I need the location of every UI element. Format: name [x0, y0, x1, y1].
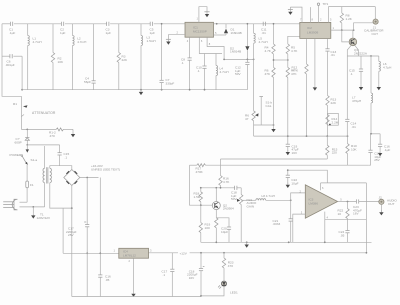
svg-text:R1: R1 [13, 102, 17, 106]
svg-text:.01: .01 [262, 31, 267, 35]
svg-text:S1-a: S1-a [31, 158, 38, 162]
svg-text:47K: 47K [265, 72, 271, 76]
wire: L7 node to C26 [371, 133, 380, 135]
svg-text:25V: 25V [68, 233, 74, 237]
svg-text:10µF: 10µF [221, 230, 228, 234]
capacitor C26 [171, 253, 173, 269]
svg-text:50V: 50V [235, 72, 241, 76]
transformer T1 [44, 146, 46, 168]
resistor R8 [341, 7, 343, 13]
wire: Q2 collector [215, 188, 217, 202]
svg-text:2N2222A: 2N2222A [354, 51, 368, 55]
svg-text:OUT: OUT [372, 32, 379, 36]
svg-text:4.7mH: 4.7mH [33, 40, 42, 44]
svg-text:22K: 22K [122, 58, 128, 62]
wire: IC4 ground leg [133, 258, 135, 291]
resistor R22 / capacitor C24 snubber [347, 202, 349, 209]
capacitor C27 [200, 253, 202, 269]
capacitor C19 to ground [286, 144, 290, 146]
connector J1 [374, 7, 376, 19]
svg-text:.1: .1 [163, 273, 166, 277]
wire: jack feed [354, 23, 373, 30]
svg-text:2.2M: 2.2M [332, 120, 339, 124]
svg-text:OUT: OUT [388, 202, 395, 206]
capacitor C3 [107, 22, 109, 26]
inductor L6 [378, 56, 380, 61]
wire: IC1 pin5 to detector [207, 37, 224, 59]
svg-text:10K: 10K [58, 60, 64, 64]
svg-text:.05: .05 [340, 233, 345, 237]
inductor L4 [215, 54, 217, 66]
wire: IC2 output line [331, 29, 354, 31]
wire: detector audio line [224, 58, 254, 60]
svg-text:1N914B: 1N914B [230, 50, 241, 54]
inductor L1 [27, 24, 29, 36]
potentiometer R1 [20, 96, 22, 129]
svg-text:L8 4.7mH: L8 4.7mH [262, 194, 275, 198]
wire: stub to ground bus [21, 56, 23, 89]
wire: wiper line to op-amp [241, 199, 256, 201]
svg-text:.1: .1 [181, 61, 184, 65]
capacitor C19b (emitter bypass) [216, 218, 229, 227]
wire: IC1 right pin to D1 [214, 34, 227, 36]
capacitor C5 [150, 22, 152, 26]
resistor R7 [286, 67, 289, 77]
svg-text:UNREG (SEE TEXT): UNREG (SEE TEXT) [91, 167, 120, 171]
svg-text:100: 100 [205, 226, 210, 230]
svg-text:TP1: TP1 [323, 2, 329, 6]
ground (detector) [273, 125, 275, 127]
switch S1-b [260, 97, 262, 125]
wire: +12V rail [149, 252, 179, 254]
ground (filter bus) [140, 89, 142, 91]
AC plug PL1 [12, 199, 17, 210]
wire: ground rail [201, 241, 372, 243]
wire: IC2 pin to ground [314, 38, 316, 85]
svg-text:47: 47 [245, 117, 249, 121]
wire: secondary top [50, 166, 72, 170]
wire: detector ground tie [254, 124, 274, 126]
svg-text:.05: .05 [105, 278, 110, 282]
resistor R15 [326, 136, 328, 145]
svg-text:56pF: 56pF [84, 80, 91, 84]
wire: unreg feed to IC4 [99, 178, 101, 254]
wire: collector line B [201, 187, 235, 189]
svg-text:J2: J2 [379, 196, 383, 200]
svg-text:POWER: POWER [10, 153, 22, 157]
svg-text:10K: 10K [351, 148, 357, 152]
capacitor C12 [246, 59, 248, 62]
wire: antenna stub [2, 55, 10, 57]
wire: bridge + output [80, 177, 99, 179]
switch node / capacitor [26, 129, 28, 137]
svg-text:470: 470 [50, 134, 55, 138]
resistor R5 [288, 36, 300, 44]
resistor R19 [200, 205, 202, 222]
svg-text:.1: .1 [65, 155, 68, 159]
svg-text:.1: .1 [350, 72, 353, 76]
op-amp IC3 LM386 [305, 185, 337, 218]
wire: audio +12V rail A [221, 158, 328, 160]
wire: LED return [201, 286, 224, 296]
switch S1-a [21, 155, 23, 157]
wire: IC2 pin5 to calibrator rail [329, 7, 376, 23]
capacitor C28 (audio supply filter) [370, 134, 372, 150]
diode D1 [225, 24, 227, 29]
capacitor C18 [235, 186, 237, 190]
svg-text:25V: 25V [374, 158, 380, 162]
wire: pin6 supply line [288, 170, 328, 183]
svg-text:10: 10 [338, 212, 342, 216]
svg-text:4.7K: 4.7K [223, 180, 230, 184]
svg-text:4.7K: 4.7K [265, 49, 272, 53]
wire: IC1 pin2 stub [168, 35, 185, 40]
svg-text:.1: .1 [197, 69, 200, 73]
ground (main) [245, 242, 249, 247]
capacitor C6 [10, 54, 12, 58]
svg-text:1µF: 1µF [60, 31, 66, 35]
resistor R2 [52, 24, 54, 53]
wire: box top [320, 183, 322, 190]
resistor R20 (emitter) [215, 210, 217, 218]
svg-text:1µF: 1µF [106, 31, 112, 35]
wire: top signal bus [2, 23, 10, 25]
wire: IC4 input line [63, 252, 119, 254]
wire: op-amp + input [291, 193, 306, 200]
svg-text:1N914B: 1N914B [231, 31, 242, 35]
connector J2 [379, 199, 384, 204]
resistor R4 [273, 24, 275, 44]
svg-text:10µF: 10µF [291, 181, 298, 185]
potentiometer R21 audio gain [240, 188, 242, 195]
wire: IC3 supply right leg [365, 183, 367, 253]
capacitor C2 [61, 22, 63, 26]
capacitor C22 (pin6 bypass) [287, 170, 289, 175]
diode D2 [246, 24, 248, 46]
svg-text:CAL: CAL [266, 104, 272, 108]
svg-text:600P: 600P [15, 140, 22, 144]
svg-text:1.5M: 1.5M [194, 195, 201, 199]
svg-text:LED1: LED1 [230, 291, 238, 295]
wire: left antenna drop [2, 24, 21, 97]
svg-text:47K: 47K [293, 69, 299, 73]
svg-text:MC1350P: MC1350P [193, 30, 207, 34]
svg-text:IC2: IC2 [307, 26, 312, 30]
inductor L7 [370, 56, 372, 93]
svg-text:4.7K: 4.7K [291, 49, 298, 53]
wire: inverting input [293, 214, 306, 242]
svg-text:.01: .01 [352, 125, 357, 129]
svg-text:470: 470 [228, 264, 233, 268]
capacitor C25 [99, 253, 101, 275]
transistor Q2 [212, 202, 220, 210]
wire: IC3 pin4 [324, 212, 326, 243]
wire: Q1 emitter to oscillator line [347, 45, 351, 56]
LED1 [221, 281, 226, 286]
ground (J2) [380, 204, 382, 212]
svg-text:22K: 22K [331, 101, 337, 105]
capacitor C21 [290, 200, 292, 219]
capacitor C8 [189, 37, 191, 58]
svg-text:1.2K: 1.2K [346, 17, 353, 21]
capacitor C15 [360, 56, 362, 69]
svg-text:50V: 50V [231, 197, 237, 201]
svg-text:ATTENUATOR: ATTENUATOR [32, 111, 56, 115]
svg-text:16V: 16V [292, 151, 298, 155]
svg-text:+12V: +12V [180, 251, 188, 255]
svg-text:120V/12V: 120V/12V [37, 216, 52, 220]
wire: IF tie [274, 59, 288, 61]
regulator IC4 [119, 248, 149, 258]
resistor R16 [220, 159, 222, 176]
wire: bottom supply rail [72, 296, 201, 298]
wire: attenuator bottom [21, 128, 56, 130]
capacitor C4 [93, 24, 95, 81]
resistor R23 (LED) [223, 253, 225, 258]
svg-text:16V: 16V [189, 276, 195, 280]
capacitor C14 [346, 56, 348, 119]
op-amp U/IC1 box [185, 22, 214, 37]
wire: IC3 output [338, 201, 357, 203]
svg-text:LM386: LM386 [309, 201, 319, 205]
fuse F1 [26, 181, 29, 188]
capacitor C13 [327, 38, 329, 48]
inductor L3 [140, 24, 142, 36]
wire: plug neutral [20, 206, 45, 208]
svg-text:4.7mH: 4.7mH [220, 70, 229, 74]
capacitor C7 [161, 24, 163, 81]
op-amp U/IC2 box [300, 22, 331, 38]
capacitor C11 [263, 22, 265, 26]
inductor L2 [72, 24, 74, 36]
ground (IC1 pin2) [166, 38, 171, 40]
capacitor C23 [356, 199, 358, 203]
resistor R3 [118, 24, 120, 53]
wire: switch arm feed [26, 145, 28, 150]
resistor R10 [347, 136, 349, 144]
svg-text:.01: .01 [331, 53, 336, 57]
svg-text:.001µF: .001µF [5, 63, 15, 67]
svg-text:4.7µH: 4.7µH [383, 65, 391, 69]
inductor L5 [253, 24, 255, 33]
resistor R6b [272, 67, 275, 77]
wire: IC2 pins to top ground bracket [290, 7, 302, 22]
svg-text:1.5mH: 1.5mH [147, 39, 156, 43]
svg-text:470µH: 470µH [352, 99, 361, 103]
resistor R18 [200, 188, 202, 192]
resistor R2b horizontal [56, 128, 63, 131]
resistor R14 (boxed) [328, 113, 339, 125]
wire: bus into IC1 right side [214, 23, 300, 25]
svg-text:16V: 16V [353, 212, 359, 216]
ground (attenuator) [72, 129, 74, 131]
svg-text:.0033: .0033 [273, 222, 281, 226]
wire: mains top line [27, 144, 59, 146]
potentiometer R6 [252, 111, 255, 121]
ground (IC2 top) [288, 9, 293, 11]
capacitor C16 [379, 134, 381, 144]
ground (IC1 top) [204, 11, 209, 13]
svg-text:4.7mH: 4.7mH [77, 40, 86, 44]
svg-text:4.7mH: 4.7mH [259, 40, 268, 44]
svg-text:2N3904: 2N3904 [223, 207, 234, 211]
capacitor C17 [86, 178, 88, 225]
wire: Q1 base [342, 30, 349, 42]
svg-text:F1: F1 [30, 183, 34, 187]
svg-text:LM78L12: LM78L12 [123, 254, 136, 258]
svg-text:.1µF: .1µF [9, 31, 15, 35]
wire: bridge bottom to common [71, 186, 73, 297]
wire: calibrator bottom rail [254, 135, 348, 137]
resistor R12 [306, 38, 308, 64]
wire: plug hot [20, 201, 28, 203]
capacitor C1 [10, 22, 12, 26]
capacitor C16b (line filter) [59, 145, 61, 153]
inductor L8 [256, 199, 266, 201]
wire: filter ground bus [22, 89, 247, 91]
svg-text:LM3909: LM3909 [307, 30, 318, 34]
test point TP1 [318, 6, 320, 23]
resistor R17 [190, 164, 197, 166]
svg-text:.1µF: .1µF [384, 148, 390, 152]
svg-text:330pF: 330pF [166, 81, 175, 85]
svg-text:470K: 470K [196, 170, 204, 174]
wire: IC1 pin1 to ground [199, 7, 207, 23]
bridge rectifier D3-D6 [64, 170, 80, 186]
transistor Q1 [352, 30, 354, 38]
svg-text:GAIN: GAIN [247, 205, 255, 209]
capacitor C10 [204, 54, 206, 67]
wire: IC1 pin6 branch [199, 37, 222, 53]
ground (mains) [32, 207, 34, 213]
resistor R13 [326, 96, 329, 106]
svg-text:220: 220 [332, 151, 337, 155]
wire: secondary bottom [50, 183, 72, 208]
svg-text:1µF: 1µF [150, 31, 156, 35]
